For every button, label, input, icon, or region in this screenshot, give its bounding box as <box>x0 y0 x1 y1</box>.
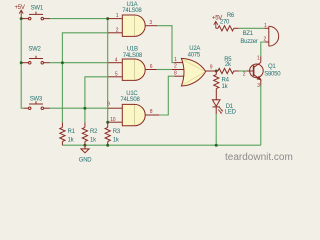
wire ground bottom rail <box>62 144 260 146</box>
op-amp U1A 74LS08 AND gate <box>108 15 157 36</box>
wire SW3 output row to U1C pin9 <box>50 107 108 109</box>
wire SW1 net vertical down to U1C pin10 <box>107 19 109 123</box>
wire SW2 net up to U1A pin2 <box>62 33 108 63</box>
svg-text:2: 2 <box>264 36 267 42</box>
svg-text:R2: R2 <box>90 129 98 135</box>
svg-text:1: 1 <box>257 56 260 62</box>
svg-text:Q1: Q1 <box>268 64 276 70</box>
junction node SW3 net <box>83 107 86 110</box>
svg-text:1: 1 <box>264 23 267 29</box>
resistor R5 <box>218 68 239 73</box>
junction node rail/R2/GND <box>83 144 86 147</box>
svg-text:Buzzer: Buzzer <box>240 39 257 45</box>
junction node SW1 net at U1A pin1 <box>106 17 109 20</box>
wire SW1 output to U1A pin1 <box>50 18 108 20</box>
svg-text:9: 9 <box>210 64 213 70</box>
svg-text:74LS08: 74LS08 <box>123 53 143 59</box>
wire U1B output to U2A pin2 <box>156 69 171 71</box>
svg-text:GND: GND <box>79 157 93 163</box>
svg-text:74LS08: 74LS08 <box>120 97 140 103</box>
op-amp U1C 74LS08 AND gate <box>108 104 160 125</box>
svg-text:S8050: S8050 <box>264 72 281 78</box>
wire U2A output node to R5 <box>239 70 247 72</box>
svg-text:BZ1: BZ1 <box>243 31 254 37</box>
svg-text:2: 2 <box>243 71 246 77</box>
LED D1 <box>212 100 223 114</box>
op-amp U1B 74LS08 AND gate <box>108 59 156 80</box>
junction node rail/D1 <box>215 144 218 147</box>
wire SW2 output row to U1B pin4 <box>50 62 108 64</box>
buzzer BZ1 <box>264 26 278 46</box>
svg-text:U2A: U2A <box>189 46 200 52</box>
junction node SW2/+5V rail <box>20 61 23 64</box>
wire Q1 collector to buzzer pin2 <box>261 42 265 57</box>
resistor R2 <box>82 123 87 146</box>
switch SW3 <box>24 101 50 109</box>
svg-text:R4: R4 <box>222 78 230 84</box>
svg-text:10: 10 <box>110 117 116 123</box>
junction node SW2 net <box>61 61 64 64</box>
wire R6 to buzzer pin1 <box>239 27 265 29</box>
svg-text:1: 1 <box>116 13 119 19</box>
svg-text:1: 1 <box>174 57 177 63</box>
svg-text:6: 6 <box>150 64 153 70</box>
wire SW3 net up to U1B pin5 <box>85 77 108 123</box>
svg-text:74LS08: 74LS08 <box>122 8 142 14</box>
svg-text:SW3: SW3 <box>30 97 43 103</box>
svg-text:3: 3 <box>257 83 260 89</box>
svg-text:270: 270 <box>220 20 230 26</box>
svg-text:8: 8 <box>174 70 177 76</box>
junction node U2A output <box>215 70 218 73</box>
svg-text:5: 5 <box>115 71 118 77</box>
svg-text:+5V: +5V <box>15 5 25 11</box>
svg-text:9: 9 <box>107 102 110 108</box>
svg-text:2: 2 <box>116 27 119 33</box>
svg-text:U1A: U1A <box>126 2 137 8</box>
junction node rail/R3 <box>106 144 109 147</box>
svg-text:3: 3 <box>149 20 152 26</box>
svg-text:4: 4 <box>115 57 118 63</box>
junction node SW1 net at U1C pin10 / R3 <box>106 121 109 124</box>
svg-text:2: 2 <box>174 64 177 70</box>
svg-text:R3: R3 <box>113 129 121 135</box>
svg-text:LED: LED <box>225 109 237 115</box>
svg-text:R6: R6 <box>227 13 235 19</box>
power +5V symbol top-left <box>19 10 23 18</box>
switch SW1 <box>21 12 50 20</box>
wire D1 cathode down <box>215 114 217 145</box>
resistor R3 <box>105 122 110 145</box>
switch SW2 <box>21 56 50 64</box>
power +5V symbol at R6 <box>214 21 218 28</box>
wire U1A output to U2A pin1 <box>157 26 174 63</box>
wire Q1 emitter down <box>260 86 262 146</box>
svg-text:U1C: U1C <box>126 91 138 97</box>
svg-text:SW2: SW2 <box>28 46 41 52</box>
resistor R6 <box>216 26 239 31</box>
resistor R1 <box>60 123 65 146</box>
ground symbol GND <box>81 145 89 153</box>
wire U1C output to U2A pin8 <box>159 76 174 115</box>
op-amp U2A 4075 OR gate <box>172 58 217 86</box>
junction node SW1/+5V <box>20 17 23 20</box>
svg-text:R1: R1 <box>68 129 76 135</box>
transistor Q1 S8050 <box>247 57 264 86</box>
svg-text:8: 8 <box>150 109 153 115</box>
wire SW2 net down to R1 <box>61 63 63 123</box>
svg-text:U1B: U1B <box>127 47 138 53</box>
svg-text:4075: 4075 <box>188 52 201 58</box>
svg-text:teardownit.com: teardownit.com <box>225 152 293 163</box>
svg-text:SW1: SW1 <box>31 5 44 11</box>
wire +5V rail left vertical <box>21 19 23 109</box>
resistor R4 <box>214 71 219 100</box>
